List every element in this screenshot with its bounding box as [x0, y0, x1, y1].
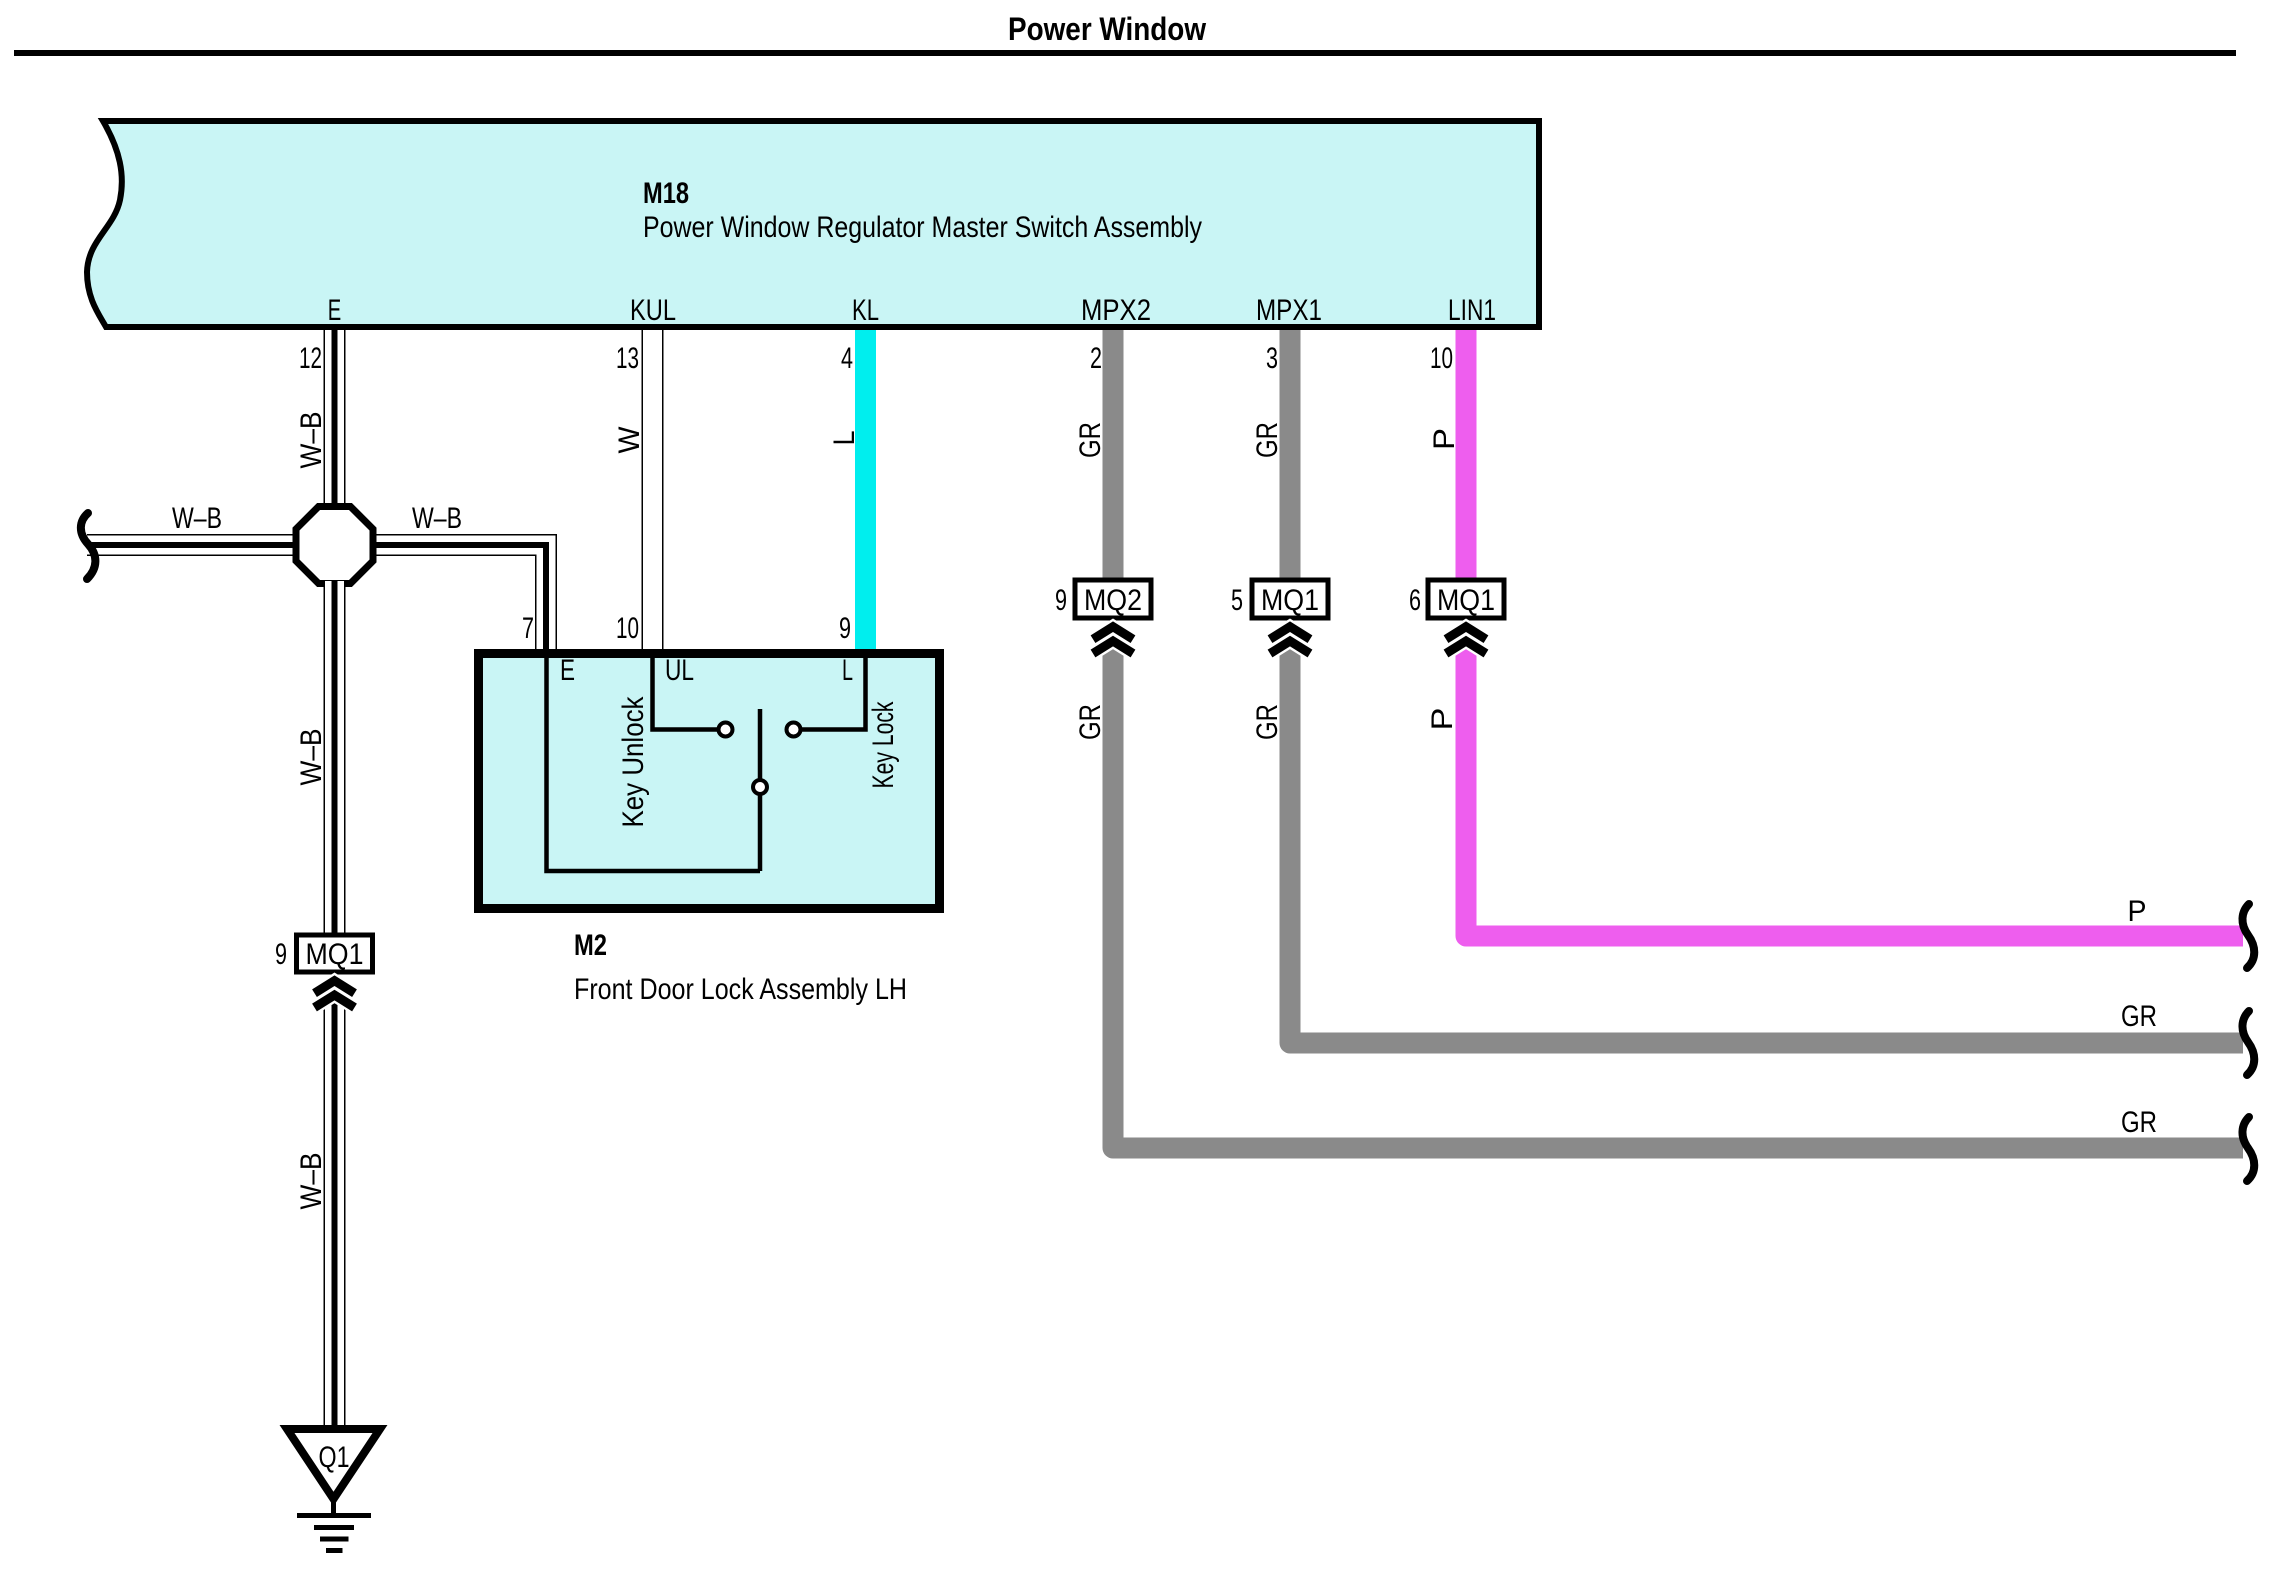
svg-text:GR: GR — [1074, 422, 1107, 458]
svg-text:2: 2 — [1090, 342, 1102, 375]
svg-text:W–B: W–B — [412, 502, 462, 535]
torn end mark right GR wire 1 — [2242, 1011, 2254, 1075]
connector 5 MQ1 — [1231, 580, 1328, 618]
svg-text:GR: GR — [1074, 704, 1107, 740]
svg-text:W–B: W–B — [295, 412, 328, 469]
svg-text:P: P — [1426, 708, 1459, 731]
wire W from M18 pin KUL (13) to M2 pin 10 — [642, 330, 664, 651]
connector 9 MQ2 — [1055, 580, 1151, 618]
svg-text:Power Window Regulator Master: Power Window Regulator Master Switch Ass… — [643, 211, 1202, 244]
svg-text:5: 5 — [1231, 584, 1243, 617]
connector 9 MQ1 (left) — [275, 935, 373, 972]
chevrons below MQ2 — [1093, 627, 1133, 654]
svg-text:13: 13 — [616, 342, 639, 375]
svg-text:7: 7 — [522, 612, 534, 645]
svg-text:10: 10 — [1430, 342, 1453, 375]
wire W-B below connector MQ1 down to ground — [324, 988, 346, 1429]
M2 UL contact — [719, 723, 733, 737]
M2 internal L leg — [801, 656, 866, 730]
junction node octagon — [296, 507, 373, 584]
svg-text:Key Lock: Key Lock — [867, 701, 900, 789]
ground stem — [331, 1495, 336, 1515]
svg-text:KUL: KUL — [630, 294, 676, 327]
chevrons below left MQ1 — [315, 981, 355, 1008]
wire W-B from M18 pin E (12) down to junction — [324, 330, 346, 510]
ground Q1 triangle — [287, 1429, 380, 1499]
chevrons below 5 MQ1 — [1270, 627, 1310, 654]
svg-text:10: 10 — [616, 612, 639, 645]
svg-text:GR: GR — [1251, 422, 1284, 458]
svg-text:P: P — [1428, 428, 1461, 450]
wire W-B from junction down to connector MQ1 — [324, 581, 346, 933]
svg-text:GR: GR — [2121, 1000, 2157, 1033]
wire P from LIN1 (10) to connector 6 MQ1 — [1456, 330, 1477, 578]
svg-text:6: 6 — [1409, 584, 1421, 617]
svg-text:E: E — [328, 294, 342, 327]
svg-text:L: L — [828, 431, 861, 446]
svg-text:M2: M2 — [574, 929, 607, 962]
wire GR below 5 MQ1 turning right to torn end — [1290, 634, 2243, 1043]
svg-text:3: 3 — [1266, 342, 1278, 375]
svg-text:W: W — [613, 426, 646, 454]
ground bar 2 — [314, 1525, 354, 1530]
wire GR below MQ2 turning right to torn end — [1113, 634, 2243, 1148]
svg-text:MPX2: MPX2 — [1081, 294, 1151, 327]
wire W-B left branch with torn end — [87, 534, 298, 556]
svg-text:MQ1: MQ1 — [306, 938, 364, 971]
torn end mark right GR wire 2 — [2242, 1117, 2254, 1181]
svg-text:9: 9 — [275, 938, 287, 971]
svg-text:MQ2: MQ2 — [1084, 584, 1142, 617]
svg-text:12: 12 — [299, 342, 322, 375]
M2 internal E leg — [547, 656, 761, 871]
svg-text:4: 4 — [841, 342, 853, 375]
svg-text:Key Unlock: Key Unlock — [617, 696, 650, 828]
svg-text:L: L — [842, 654, 853, 687]
ground bar 1 — [297, 1513, 371, 1518]
svg-text:KL: KL — [852, 294, 879, 327]
M2 internal UL leg — [653, 656, 719, 730]
svg-text:MPX1: MPX1 — [1256, 294, 1322, 327]
torn end mark right P wire — [2242, 904, 2254, 968]
component M18 Power Window Regulator Master Switch Assembly — [87, 121, 1539, 327]
svg-text:GR: GR — [1251, 704, 1284, 740]
wire P below 6 MQ1 turning right to torn end — [1466, 634, 2243, 936]
svg-text:9: 9 — [839, 612, 851, 645]
wire GR from MPX2 (2) to connector MQ2 — [1103, 330, 1124, 578]
connector 6 MQ1 — [1409, 580, 1504, 618]
svg-text:GR: GR — [2121, 1106, 2157, 1139]
svg-text:M18: M18 — [643, 177, 689, 210]
M2 switch lever — [758, 709, 763, 871]
ground bar 3 — [320, 1537, 349, 1542]
svg-text:MQ1: MQ1 — [1261, 584, 1319, 617]
svg-text:MQ1: MQ1 — [1437, 584, 1495, 617]
component M2 Front Door Lock Assembly LH — [479, 654, 940, 909]
wire W-B right branch from junction turning down to M2 pin 7 — [371, 545, 546, 651]
title rule — [14, 50, 2236, 56]
svg-text:LIN1: LIN1 — [1448, 294, 1496, 327]
ground bar 4 — [326, 1548, 343, 1553]
M2 lever pivot — [753, 780, 767, 794]
svg-text:P: P — [2128, 895, 2147, 928]
torn end mark left — [81, 513, 96, 579]
chevrons below 6 MQ1 — [1446, 627, 1486, 654]
svg-text:W–B: W–B — [172, 502, 222, 535]
M2 L contact — [787, 723, 801, 737]
wire L cyan from M18 pin KL (4) to M2 pin 9 — [855, 330, 876, 651]
svg-text:W–B: W–B — [295, 729, 328, 786]
svg-text:W–B: W–B — [295, 1153, 328, 1210]
svg-text:UL: UL — [665, 654, 694, 687]
svg-text:Q1: Q1 — [319, 1441, 350, 1474]
svg-text:Front Door Lock Assembly LH: Front Door Lock Assembly LH — [574, 973, 907, 1006]
svg-text:Power Window: Power Window — [1008, 11, 1206, 47]
svg-text:E: E — [560, 654, 575, 687]
svg-text:9: 9 — [1055, 584, 1067, 617]
wire GR from MPX1 (3) to connector 5 MQ1 — [1280, 330, 1301, 578]
